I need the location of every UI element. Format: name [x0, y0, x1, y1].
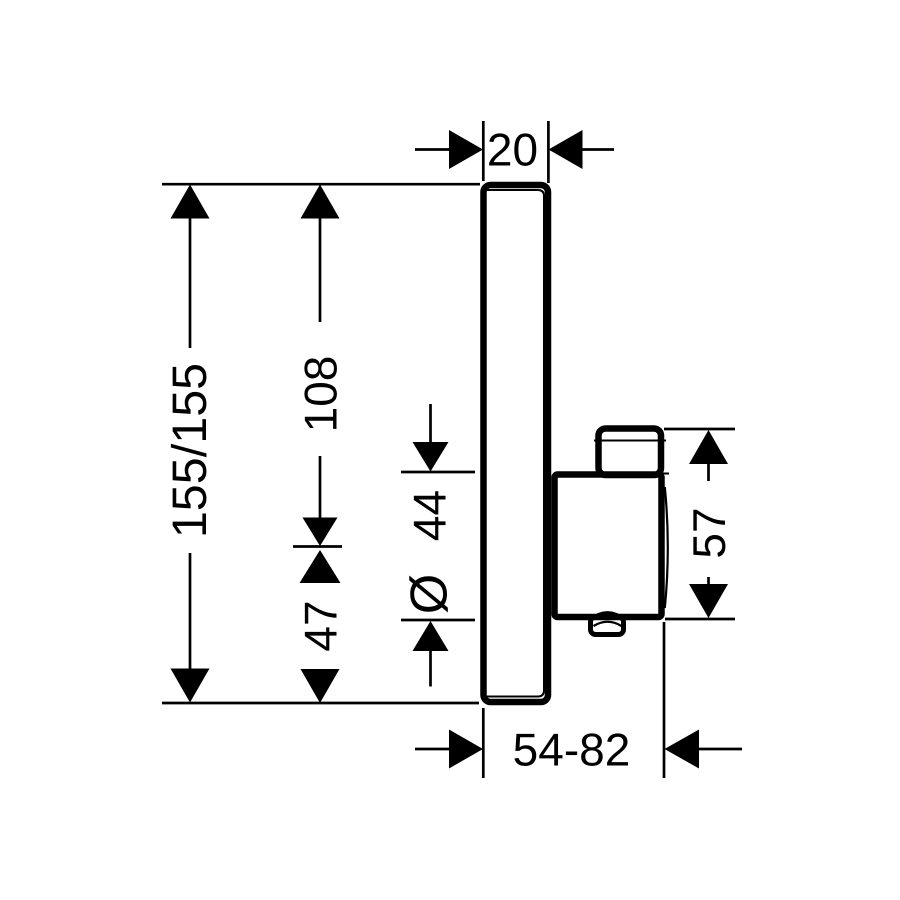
dim 57: top extension line: [664, 428, 735, 431]
dim 108: lower shaft: [319, 456, 322, 519]
svg-text:44: 44: [404, 490, 456, 541]
dim 20: left arrowhead: [449, 130, 483, 169]
dim 54-82: left extension line: [482, 708, 485, 778]
dim 20: left extension line: [482, 121, 485, 181]
handle cap outer: [599, 429, 662, 476]
top extension line (155/108): [162, 183, 480, 186]
dim 155/155: bottom arrowhead: [171, 669, 210, 703]
dim 47: top arrowhead: [300, 550, 341, 583]
bottom extension line (155/47): [162, 702, 479, 705]
svg-text:20: 20: [487, 124, 538, 176]
dim 57: bottom extension line: [665, 618, 735, 621]
svg-text:108: 108: [295, 356, 347, 433]
dim 108: top arrowhead: [301, 185, 340, 219]
tab inner arc: [594, 622, 622, 626]
dim 54-82: right extension line: [663, 622, 666, 778]
dim 57: lower shaft: [707, 577, 710, 587]
handle cap inner line: [594, 440, 666, 442]
sleeve outer: [555, 475, 662, 618]
plate inner bevel line: [487, 190, 544, 697]
dim 44: top tick line: [401, 471, 475, 474]
svg-text:47: 47: [295, 600, 347, 651]
dim 57: bottom arrowhead: [689, 584, 728, 618]
plate outer: [484, 185, 549, 702]
svg-text:57: 57: [683, 507, 735, 558]
dim 155/155: upper shaft: [189, 217, 192, 349]
handle right bulge arc: [665, 487, 668, 608]
dim 20: right shaft: [583, 148, 615, 151]
dim 108: upper shaft: [319, 215, 322, 322]
dim 57: upper shaft: [707, 462, 710, 481]
dim 54-82: left arrowhead: [449, 730, 483, 769]
dim 108/47: tick line: [293, 545, 342, 548]
dim 155/155: top arrowhead: [171, 185, 210, 219]
dim 57: top arrowhead: [689, 430, 728, 464]
dim 54-82: right shaft: [697, 748, 742, 751]
dim 44: upper shaft: [429, 404, 432, 444]
dim 155/155: lower shaft: [189, 553, 192, 671]
dim 54-82: left shaft: [415, 748, 451, 751]
dim 20: left shaft: [415, 148, 451, 151]
dim 44: bottom tick line: [401, 619, 475, 622]
dim 20: right extension line: [547, 121, 550, 183]
svg-text:54-82: 54-82: [513, 724, 631, 776]
mounting tab: [591, 617, 624, 635]
dim 20: right arrowhead: [549, 130, 583, 169]
svg-text:Ø: Ø: [401, 574, 459, 614]
dim 44: top arrowhead: [413, 442, 449, 472]
dim 47: bottom arrowhead: [301, 669, 340, 703]
tab dome bump: [591, 613, 625, 620]
svg-text:155/155: 155/155: [163, 363, 217, 538]
sleeve top right tick: [658, 473, 669, 475]
dim 44: bottom arrowhead: [413, 621, 449, 651]
dim 54-82: right arrowhead: [665, 730, 700, 769]
dim 44: lower shaft: [429, 649, 432, 687]
dim 108: bottom arrowhead: [303, 518, 338, 547]
